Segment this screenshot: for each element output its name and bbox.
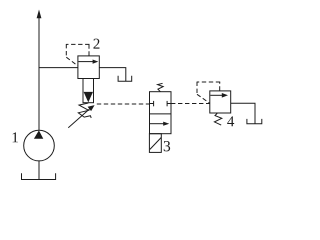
tank: main reservoir xyxy=(22,173,56,179)
pilot line (dashed) of valve 4 xyxy=(197,82,220,104)
tank: valve 4 drain xyxy=(247,119,262,124)
pump 1 xyxy=(24,130,55,161)
label 2 xyxy=(93,39,99,49)
wire: valve 4 outlet to tank xyxy=(231,103,255,123)
tank: valve 2 drain xyxy=(118,76,132,81)
pilot line (dashed): valve 2 to valve 3 xyxy=(97,103,150,105)
pilot poppet stage of valve 2 xyxy=(83,79,94,103)
arrow: flow direction to system xyxy=(37,10,42,19)
label 1 xyxy=(13,132,18,142)
spring of valve 4 xyxy=(214,113,221,125)
arrow: adjustability of valve 2 spring xyxy=(68,105,94,128)
closed ports in valve 3 top position xyxy=(150,101,172,106)
arrow: open path in valve 3 bottom position xyxy=(150,122,170,126)
wire: branch to relief valve 2 inlet xyxy=(39,67,78,69)
label 4 xyxy=(227,116,234,126)
label 3 xyxy=(164,141,170,151)
remote pressure valve U4 body xyxy=(210,91,231,113)
pilot line (dashed): valve 3 to valve 4 xyxy=(171,103,210,105)
pilot line (dashed) of valve 2 xyxy=(66,44,89,66)
spring (adjustable) of valve 2 xyxy=(78,103,91,118)
valve 3: 2/2 solenoid valve body xyxy=(150,92,172,134)
spring of valve 3 xyxy=(158,83,164,91)
solenoid of valve 3 xyxy=(149,134,161,153)
relief valve U2 main body xyxy=(78,56,99,79)
wire: main supply line from pump to system xyxy=(38,18,40,130)
wire: pump suction line xyxy=(38,161,40,179)
wire: valve 2 outlet to tank xyxy=(99,68,126,81)
